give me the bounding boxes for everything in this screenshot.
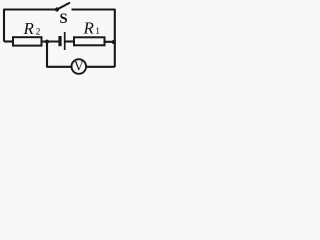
wire: battery to R1	[65, 40, 74, 42]
resistor R2 box	[13, 37, 42, 45]
switch S blade	[58, 3, 70, 9]
node A junction dot (voltmeter tap left)	[45, 40, 49, 44]
voltmeter V letter	[74, 59, 84, 74]
wire: switch to top-right corner and down right side	[72, 10, 115, 68]
wire: voltmeter branch down from node A and along bottom	[47, 42, 115, 67]
svg-text:V: V	[74, 59, 84, 74]
resistor R1 label	[83, 19, 101, 38]
wire: R2 to battery	[42, 40, 59, 42]
svg-text:S: S	[59, 11, 67, 27]
resistor R2 label	[23, 19, 41, 38]
wire: top-left segment to switch pivot	[4, 10, 57, 42]
voltmeter V circle	[72, 59, 87, 74]
svg-text:R: R	[23, 19, 35, 38]
svg-text:1: 1	[95, 27, 100, 37]
svg-text:R: R	[83, 19, 95, 38]
switch S label	[59, 11, 67, 27]
wire: R1 to right edge	[105, 41, 115, 43]
node B junction dot (voltmeter tap right)	[112, 40, 116, 44]
wire: middle row from left edge into R2	[4, 40, 13, 42]
battery negative plate (short thick)	[58, 36, 61, 46]
svg-text:2: 2	[36, 28, 41, 38]
resistor R1 box	[74, 37, 105, 45]
battery positive plate (long thin)	[64, 32, 66, 50]
switch S pivot node	[55, 7, 59, 11]
